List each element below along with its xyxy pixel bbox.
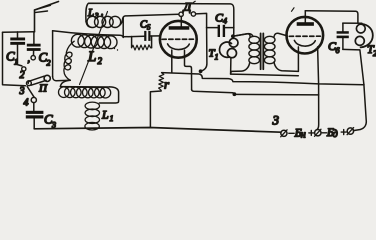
transformer secondary winding: [264, 36, 275, 63]
variometer wire above L2: [53, 31, 124, 38]
svg-text:1: 1: [110, 114, 114, 123]
filament resistor r: [150, 73, 163, 128]
node dot at transformer branch: [231, 34, 235, 38]
svg-text:4: 4: [24, 98, 29, 109]
svg-text:2: 2: [20, 70, 25, 81]
capacitor C1: [10, 32, 25, 66]
coupling arrow through L2 and L3: [80, 12, 108, 85]
wire left vertical to switch: [3, 32, 26, 85]
svg-text:2: 2: [47, 59, 51, 68]
svg-text:2: 2: [98, 56, 103, 66]
svg-text:5: 5: [147, 24, 151, 32]
antenna: [35, 2, 59, 32]
inductor L3: [86, 16, 123, 27]
wire C4 node down to T1: [233, 28, 235, 39]
inductor L1 vertical winding: [85, 102, 100, 130]
svg-text:L: L: [101, 108, 109, 122]
wire descender to lever pivot: [53, 76, 71, 80]
node grid jumper circles: [179, 12, 183, 16]
inductor L1 horizontal winding: [59, 87, 111, 98]
label -Bd: [322, 132, 327, 134]
svg-text:4: 4: [223, 17, 227, 26]
grid capacitor C5 with leak resistor: [123, 31, 160, 50]
wire transformer secondary top to tube2: [274, 33, 287, 37]
svg-text:3: 3: [19, 86, 25, 97]
wire L3 to grid circles: [123, 14, 179, 20]
contact 1 of switch: [31, 56, 35, 60]
svg-text:П: П: [38, 83, 48, 95]
svg-text:L: L: [87, 7, 94, 19]
svg-text:3: 3: [272, 113, 280, 128]
capacitor C2: [27, 32, 41, 56]
terminal +Bd: [347, 128, 354, 135]
terminal ground: [281, 130, 287, 137]
wire tube2 plate to C6/T2: [305, 11, 358, 23]
wire transformer secondary bottom to tube2 left leg: [274, 62, 298, 72]
contact 4 of switch: [31, 97, 36, 102]
vacuum tube 1 (detector): [160, 16, 197, 89]
transformer Tr core: [261, 33, 264, 69]
wire T1 node to transformer primary top: [233, 34, 253, 37]
switch lever P: [27, 31, 53, 86]
contact 2 of switch: [22, 67, 26, 71]
capacitor C3: [26, 103, 44, 129]
svg-text:д: д: [333, 129, 338, 140]
wire T1 junction rail to tube2 leg: [231, 74, 299, 76]
wire grid vertical down to filament rail: [201, 28, 207, 71]
inductor L2: [71, 34, 117, 48]
vacuum tube 2 (amplifier): [287, 11, 324, 130]
filament rail W1: [162, 73, 364, 85]
svg-text:,: ,: [28, 54, 31, 65]
wire pivot area to L1: [60, 80, 70, 86]
inductor L2 left descender loops: [64, 41, 74, 80]
phone jack T1: [219, 38, 238, 74]
vertical node wire L3/L2: [122, 17, 124, 37]
headphones T2: [355, 24, 373, 48]
terminal +Bn: [315, 129, 322, 136]
wire T2 bottom down to battery terminal: [353, 50, 366, 131]
background paper: [0, 0, 376, 141]
svg-text:6: 6: [336, 46, 340, 55]
wire transformer primary top lead: [233, 34, 250, 37]
node dot W2: [233, 92, 237, 96]
wire contact3 to contact4: [27, 87, 34, 98]
rail W2 grid return: [192, 90, 233, 93]
top long wire with rounded corners: [86, 3, 234, 27]
wire L1 right end down: [99, 87, 118, 103]
transformer primary winding: [249, 36, 260, 63]
svg-text:1: 1: [14, 58, 18, 67]
wire top-left horizontal: [3, 31, 35, 34]
wire grid circle to C4 vertical: [196, 13, 207, 27]
label -Bn: [289, 132, 294, 134]
coupling capacitor C4: [207, 25, 234, 37]
svg-text:1: 1: [215, 53, 219, 62]
node junction dot: [199, 69, 203, 73]
svg-text:н: н: [301, 129, 306, 140]
capacitor C6: [337, 23, 362, 50]
wire transformer primary bottom to T1 junction: [231, 62, 250, 74]
svg-text:Д: Д: [183, 0, 193, 14]
svg-text:3: 3: [94, 12, 99, 20]
bottom bus wire: [34, 128, 281, 133]
svg-text:,: ,: [101, 7, 103, 17]
